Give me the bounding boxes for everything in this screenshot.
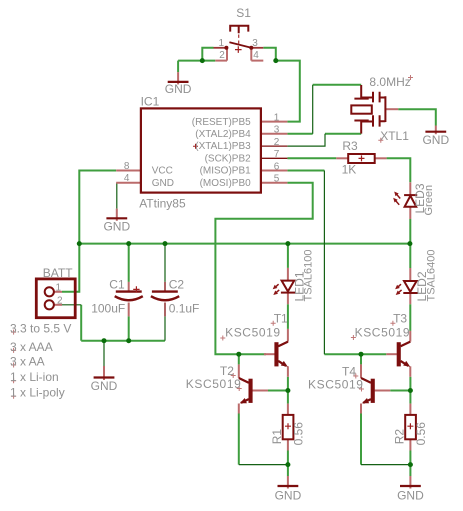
node gnd right — [408, 462, 413, 467]
wire r1 bottom — [287, 451, 289, 465]
t4 emitter lead — [360, 404, 362, 414]
svg-text:GND: GND — [165, 82, 192, 96]
pin name labels 10px — [56, 38, 280, 307]
led2 triangle — [404, 281, 417, 292]
node t1 base — [236, 352, 241, 357]
svg-text:5: 5 — [274, 174, 280, 185]
svg-text:1: 1 — [56, 282, 62, 293]
capacitor C2 arc — [151, 296, 179, 300]
wire t4 base — [390, 390, 410, 392]
svg-text:KSC5019: KSC5019 — [225, 326, 281, 340]
svg-text:XTL1: XTL1 — [380, 129, 409, 143]
gnd bar mid — [278, 485, 299, 487]
contact s1 left — [224, 46, 228, 50]
wire t2 collector drop — [238, 354, 240, 364]
wire xtal bottom — [325, 133, 361, 135]
c1 lead bottom — [128, 303, 130, 317]
node c2 top — [163, 241, 168, 246]
cross batt line2 — [11, 348, 16, 353]
plus r3 — [359, 155, 365, 161]
pin 2 ic — [261, 145, 288, 147]
transistor T1 emitter arrow — [281, 361, 288, 367]
wire batt minus vertical — [80, 305, 82, 341]
wire led1 to t1 — [287, 304, 289, 329]
svg-text:2: 2 — [219, 50, 225, 61]
led1 arrow 1 — [275, 284, 279, 287]
pin 6 ic — [261, 170, 288, 172]
battery connector box — [36, 279, 75, 318]
wire xtal top — [313, 84, 362, 86]
wire t3 emitter to r2 junction — [409, 377, 411, 404]
t3 collector lead — [409, 331, 411, 342]
component symbols maroon — [36, 26, 446, 486]
led3 bar — [404, 194, 417, 196]
plus xtal1 pin cross — [193, 144, 198, 149]
transistor T3 collector diag — [401, 342, 411, 347]
node led3 led2 rail — [407, 241, 412, 246]
c1 lead top — [128, 282, 130, 292]
wire s1 link left — [226, 48, 228, 61]
wire rail to led2 — [409, 244, 411, 268]
svg-text:8: 8 — [124, 161, 130, 172]
svg-text:1 x Li-ion: 1 x Li-ion — [10, 370, 59, 384]
transistor T2 emitter diag — [241, 399, 249, 403]
wire miso vertical — [323, 171, 325, 355]
pin s1-4 — [251, 60, 263, 62]
transistor T3 emitter arrow — [403, 361, 410, 367]
gnd bar switch — [168, 81, 189, 83]
svg-text:TSAL6100: TSAL6100 — [303, 250, 315, 302]
wire switch pin3 to junction — [263, 48, 276, 61]
led3 arrow 1 — [396, 194, 400, 199]
cross batt line3 — [11, 363, 16, 368]
wire t2 emitter to gnd — [239, 464, 288, 466]
svg-text:(XTAL2)PB4: (XTAL2)PB4 — [195, 129, 251, 140]
pin leads light red — [54, 48, 436, 489]
transistor T4 emitter diag — [363, 399, 371, 403]
svg-text:4: 4 — [124, 173, 130, 184]
transistor Q bar T1 — [274, 342, 278, 366]
t3 emitter lead — [409, 366, 411, 377]
node gnd mid — [285, 462, 290, 467]
pin s1-1 — [214, 47, 227, 49]
t2 base lead — [252, 390, 268, 392]
cross t4 name — [353, 374, 358, 379]
wire pin3 xtal2 — [287, 133, 312, 135]
capacitor C1 plate — [116, 290, 142, 292]
gnd stem ic4 — [116, 209, 118, 221]
transistor Q bar T3 — [397, 342, 401, 366]
op box: IC1 outline — [141, 108, 261, 192]
plus r1 — [285, 423, 291, 429]
r3 lead left — [336, 157, 348, 159]
wire gnd stem bottom left — [103, 341, 105, 366]
svg-text:7: 7 — [274, 149, 280, 160]
svg-text:0.56: 0.56 — [292, 422, 306, 446]
node gnd bottom left — [102, 338, 107, 343]
svg-text:VCC: VCC — [152, 166, 173, 177]
cross t3 value — [351, 335, 356, 340]
svg-text:8.0MHz: 8.0MHz — [369, 75, 410, 89]
svg-text:2: 2 — [274, 137, 280, 148]
led1 bar — [281, 292, 296, 294]
pin 1 ic — [261, 121, 288, 123]
resonator crystal rect — [351, 105, 372, 113]
resistor R2 — [405, 415, 416, 439]
pin s1-2 — [215, 60, 227, 62]
svg-text:ATtiny85: ATtiny85 — [139, 197, 186, 211]
svg-text:GND: GND — [397, 488, 424, 502]
cross batt line1 — [11, 330, 16, 335]
wire pin4 gnd — [116, 183, 118, 209]
c2 lead bottom — [164, 303, 166, 317]
wire s1 link right — [250, 48, 252, 61]
led2 arrow 1 — [397, 284, 401, 287]
pin 5 ic — [261, 182, 288, 184]
transistor T4 collector diag — [361, 378, 371, 383]
svg-text:TSAL6400: TSAL6400 — [426, 250, 438, 302]
cross t4 value — [359, 387, 364, 392]
t4 collector lead — [360, 364, 362, 378]
svg-text:0.56: 0.56 — [414, 422, 428, 446]
plus s1 cross — [235, 46, 242, 53]
cross t3 name — [390, 321, 395, 326]
transistor T1 emitter diag — [278, 361, 286, 366]
wire c2 bottom — [164, 316, 166, 340]
node c1 bottom — [126, 338, 131, 343]
wire gnd rail bottom left — [81, 340, 165, 342]
node vcc batt — [77, 241, 82, 246]
wire mosi net — [215, 183, 312, 355]
t4 base lead — [375, 390, 391, 392]
gnd bar bottom left — [94, 376, 115, 378]
svg-text:R1: R1 — [270, 429, 284, 445]
wire switch pin1 to junction — [202, 48, 213, 61]
t1 collector lead — [287, 329, 289, 342]
led1 lead top — [287, 268, 289, 281]
capacitor C1 arc — [115, 296, 143, 300]
svg-text:R3: R3 — [342, 139, 358, 153]
wire miso horizontal — [287, 170, 324, 172]
svg-text:KSC5019: KSC5019 — [355, 326, 411, 340]
cross batt line5 — [11, 394, 16, 399]
transistor T4 emitter arrow — [362, 398, 369, 403]
svg-text:100uF: 100uF — [91, 301, 125, 315]
t2 emitter lead — [238, 404, 240, 414]
svg-text:1: 1 — [274, 113, 280, 124]
wire gnd stem right — [409, 465, 411, 476]
gnd bar ic4 — [106, 217, 127, 219]
wire r3 to led3 — [387, 158, 411, 182]
led3 arrow 2 — [395, 200, 399, 205]
led emission arrows — [273, 192, 402, 296]
svg-text:Green: Green — [423, 185, 435, 216]
transistor diagonals — [239, 342, 410, 404]
svg-text:1 x Li-poly: 1 x Li-poly — [10, 386, 65, 400]
t1 emitter lead — [287, 366, 289, 377]
svg-text:3: 3 — [252, 38, 258, 49]
svg-text:S1: S1 — [236, 6, 251, 20]
switch dashed actuator line — [238, 35, 240, 46]
svg-text:1K: 1K — [342, 163, 357, 177]
wire batt plus vertical — [62, 244, 79, 292]
wire vcc rail — [79, 243, 410, 245]
wire led1 top — [287, 244, 289, 268]
gnd stem right red — [409, 476, 411, 489]
svg-text:BATT: BATT — [43, 266, 73, 280]
gnd stem bottom left — [103, 366, 105, 380]
svg-text:(MISO)PB1: (MISO)PB1 — [200, 166, 252, 177]
cross t1 value — [220, 336, 225, 341]
svg-text:2: 2 — [57, 295, 63, 306]
wire c1 bottom — [128, 316, 130, 340]
wire t2 base — [268, 390, 288, 392]
wire xtl pin2 to gnd — [398, 109, 436, 125]
switch S1 lever — [229, 42, 250, 47]
wire sck to r3 — [287, 157, 336, 159]
cross t2 name — [231, 373, 236, 378]
xtl pin2 lead — [385, 108, 398, 110]
led2 lead top — [409, 268, 411, 281]
small origin crosses — [11, 75, 413, 399]
svg-text:0.1uF: 0.1uF — [169, 301, 200, 315]
led3 triangle — [405, 196, 417, 207]
node led1 top — [285, 241, 290, 246]
node switch right — [273, 58, 278, 63]
svg-text:GND: GND — [91, 379, 118, 393]
led3 lead top — [409, 182, 411, 195]
switch contact dots — [224, 46, 253, 50]
transistor T1 collector diag — [278, 342, 288, 347]
c2 lead top — [164, 282, 166, 292]
gnd stem switch — [177, 72, 179, 84]
battery pin circle 1 — [45, 287, 54, 296]
wire batt minus horizontal — [62, 304, 81, 306]
cross t1 name — [271, 321, 276, 326]
svg-text:T3: T3 — [393, 311, 407, 325]
gnd stem xtl — [435, 126, 437, 135]
r1 lead bottom — [287, 439, 289, 450]
svg-text:C1: C1 — [109, 277, 125, 291]
svg-text:4: 4 — [253, 50, 259, 61]
svg-text:C2: C2 — [169, 277, 185, 291]
svg-text:GND: GND — [103, 220, 130, 234]
svg-text:R2: R2 — [392, 429, 406, 445]
wire t4 emitter to gnd — [361, 464, 410, 466]
node r1 top — [285, 388, 290, 393]
svg-text:GND: GND — [152, 178, 174, 189]
wire r2 bottom — [409, 451, 411, 465]
led1 triangle — [282, 281, 295, 292]
svg-text:(MOSI)PB0: (MOSI)PB0 — [200, 178, 252, 189]
wire t2 emitter down — [238, 414, 240, 465]
node r2 top — [408, 388, 413, 393]
capacitor C2 plate — [152, 290, 178, 292]
switch S1 actuator bracket — [230, 26, 248, 34]
transistor T2 emitter arrow — [240, 398, 247, 403]
transistor T2 collector diag — [239, 378, 249, 383]
svg-text:GND: GND — [422, 133, 449, 147]
gnd bar right — [400, 485, 421, 487]
svg-text:3.3 to 5.5 V: 3.3 to 5.5 V — [10, 322, 71, 336]
gnd stem mid red — [287, 476, 289, 489]
node switch left — [200, 58, 205, 63]
svg-text:IC1: IC1 — [141, 95, 160, 109]
svg-text:KSC5019: KSC5019 — [186, 377, 242, 391]
r2 lead bottom — [409, 439, 411, 450]
t2 collector lead — [238, 364, 240, 378]
gnd bar xtl — [425, 131, 446, 133]
resistor R1 — [283, 415, 294, 439]
cross batt line4 — [11, 378, 16, 383]
rotated labels — [270, 183, 438, 445]
svg-text:GND: GND — [275, 488, 302, 502]
wires dark green thin — [62, 85, 410, 465]
r2 lead top — [409, 404, 411, 415]
svg-text:T1: T1 — [274, 311, 288, 325]
pin 4 ic — [116, 182, 141, 184]
svg-text:6: 6 — [274, 161, 280, 172]
node c1 top — [126, 241, 131, 246]
red plus crosses — [133, 46, 413, 429]
resonator XTL1 — [354, 85, 385, 134]
wire junction to r1 — [287, 391, 289, 404]
wire t4 collector drop — [360, 354, 362, 364]
led2 arrow 2 — [398, 290, 402, 293]
led3 lead bottom — [409, 207, 411, 219]
led1 arrow 2 — [276, 290, 280, 293]
wire switch-left gnd drop — [177, 61, 179, 73]
svg-text:(XTAL1)PB3: (XTAL1)PB3 — [195, 141, 251, 152]
t1 base lead — [264, 353, 275, 355]
resistor R3 — [348, 154, 375, 163]
wire c1 top — [128, 244, 130, 282]
wire xtal1 net — [287, 134, 325, 146]
svg-text:3 x AA: 3 x AA — [10, 355, 45, 369]
svg-text:(SCK)PB2: (SCK)PB2 — [205, 153, 252, 164]
r1 lead top — [287, 404, 289, 415]
battery pin circle 2 — [45, 300, 54, 309]
svg-text:(RESET)PB5: (RESET)PB5 — [192, 117, 251, 128]
wire t4 emitter down — [360, 414, 362, 465]
wire vcc pin8 — [79, 171, 116, 244]
pin 3 ic — [261, 133, 288, 135]
wire led3 to rail — [409, 219, 411, 244]
wire reset net — [276, 61, 300, 122]
pin 8 ic — [116, 170, 141, 172]
transistor bars — [249, 342, 401, 403]
led2 bar — [403, 292, 418, 294]
batt pin2 lead — [54, 304, 62, 306]
wire t1 emitter to r1 junction — [287, 377, 289, 391]
transistor Q bar T4 — [371, 379, 375, 403]
node t3 base — [359, 352, 364, 357]
wires bright green — [62, 48, 436, 476]
wire xtal2 vertical — [312, 85, 314, 134]
svg-text:3 x AAA: 3 x AAA — [10, 340, 53, 354]
transistor Q bar T2 — [249, 379, 253, 403]
batt pin1 lead — [54, 291, 62, 293]
cross t2 value — [237, 386, 242, 391]
wire led2 to t3 — [409, 304, 411, 331]
svg-text:3: 3 — [274, 125, 280, 136]
dark thin pin leads (pins 2 and 7) — [165, 146, 287, 316]
r3 lead right — [375, 157, 387, 159]
svg-text:KSC5019: KSC5019 — [308, 377, 364, 391]
plus c1 polarity — [133, 286, 139, 292]
contact s1 right — [249, 46, 253, 50]
cross xtl1 — [378, 138, 383, 143]
t3 base lead — [386, 353, 397, 355]
wire switch left horizontal — [178, 60, 215, 62]
svg-text:1: 1 — [219, 38, 225, 49]
wire t3 base — [324, 353, 386, 355]
transistor T3 emitter diag — [401, 361, 409, 366]
pin 7 ic — [261, 157, 288, 159]
led1 lead bottom — [287, 293, 289, 305]
led2 lead bottom — [409, 293, 411, 304]
wire c2 top — [164, 244, 166, 282]
wire gnd stem mid — [287, 465, 289, 476]
plus r2 — [407, 423, 413, 429]
cross 8.0MHz — [408, 75, 413, 80]
pin s1-3 — [251, 47, 263, 49]
